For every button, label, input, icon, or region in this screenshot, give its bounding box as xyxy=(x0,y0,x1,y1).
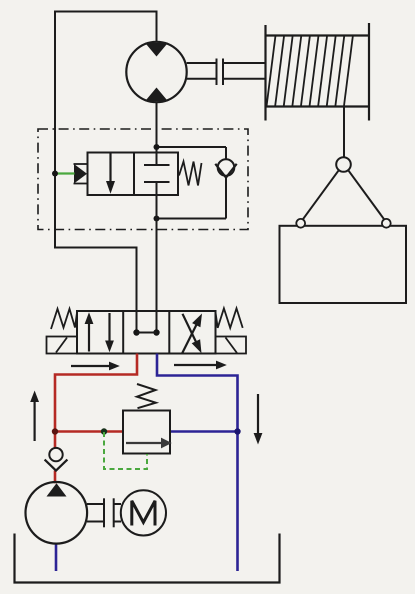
green solenoid signal wire xyxy=(55,172,75,174)
junction dot blue xyxy=(234,428,240,434)
4/3 left solenoid xyxy=(47,337,78,354)
4/3 right position crossed arrows xyxy=(182,314,202,354)
hook ring xyxy=(336,157,351,172)
check valve CV1 (pump outlet) xyxy=(45,448,68,471)
coupling pump/motor xyxy=(104,498,114,527)
wire: top-left loop from motor top to valve port A xyxy=(55,12,157,333)
rope from drum xyxy=(343,107,345,158)
flow arrow above red line xyxy=(71,362,120,371)
wire: motor bottom to 2/2 valve xyxy=(156,102,158,152)
4/3 directional valve body xyxy=(77,311,216,354)
junction on left wire xyxy=(52,171,58,177)
bypass wire bottom xyxy=(157,218,227,220)
hydraulic motor M1 xyxy=(126,42,186,102)
coupling motor/drum xyxy=(217,59,224,86)
dashed enclosure (manifold) xyxy=(38,129,248,230)
red branch to relief valve xyxy=(55,430,123,433)
bypass wire top xyxy=(157,146,227,148)
red line junction to check valve xyxy=(54,432,57,449)
flow arrow above blue line xyxy=(174,361,227,370)
4/3 right spring xyxy=(216,308,243,328)
4/3 left position parallel arrows xyxy=(85,312,114,352)
flow arrow down (right) xyxy=(254,394,263,445)
pump P1 xyxy=(26,482,88,544)
relief valve spring xyxy=(137,384,156,408)
junction dot bottom xyxy=(154,216,160,222)
pump shaft xyxy=(87,504,121,522)
check valve CV2 (bypass) xyxy=(215,147,236,219)
2/2 valve blocked ports xyxy=(144,153,170,196)
2/2 valve open-position arrow xyxy=(106,154,115,194)
4/3 left spring xyxy=(51,309,77,329)
lifting eye left xyxy=(296,219,305,228)
junction dot red xyxy=(52,428,58,434)
blue return line from port B xyxy=(157,354,238,572)
lifting eye right xyxy=(382,219,391,228)
blue pump suction line xyxy=(55,543,58,571)
tank xyxy=(15,534,280,583)
shaft motor to drum xyxy=(187,63,266,79)
winch drum xyxy=(266,23,370,121)
4/3 right solenoid xyxy=(216,337,247,354)
pilot tap dot xyxy=(101,428,107,434)
flow arrow up (left) xyxy=(30,391,39,442)
load box xyxy=(280,226,407,303)
sling left xyxy=(303,170,339,220)
red line check valve to pump xyxy=(54,471,57,484)
2/2 solenoid valve body xyxy=(88,153,179,196)
junction dot top xyxy=(154,144,160,150)
red pressure line from port A xyxy=(55,354,137,432)
blue line relief valve outlet xyxy=(170,430,238,433)
solenoid actuator of 2/2 valve xyxy=(74,164,88,184)
drum cable hatching xyxy=(267,36,353,107)
wire: 2/2 valve to 4/3 valve port B xyxy=(156,195,158,333)
4/3 centre position: connected ports xyxy=(133,329,159,335)
electric motor M xyxy=(121,490,166,535)
sling right xyxy=(348,170,384,220)
green pilot line (dashed) xyxy=(104,432,147,469)
spring of 2/2 valve xyxy=(179,162,202,186)
relief valve RV1 xyxy=(123,411,172,454)
